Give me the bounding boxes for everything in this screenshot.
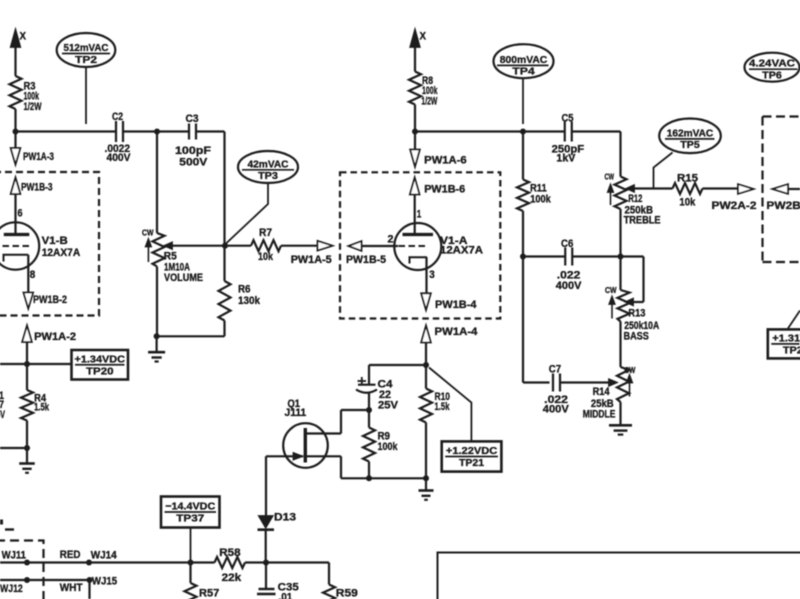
svg-text:42mVAC: 42mVAC: [248, 158, 289, 170]
svg-text:1/2W: 1/2W: [421, 96, 437, 108]
svg-text:PW2A-2: PW2A-2: [712, 200, 757, 212]
svg-text:TP21: TP21: [459, 457, 484, 469]
svg-text:10k: 10k: [679, 197, 696, 209]
svg-text:R7: R7: [259, 227, 272, 239]
svg-text:V1-B: V1-B: [42, 235, 68, 247]
svg-text:MIDDLE: MIDDLE: [583, 409, 616, 421]
svg-text:400V: 400V: [556, 280, 582, 292]
svg-text:C2: C2: [112, 111, 123, 123]
svg-text:6: 6: [18, 208, 23, 220]
svg-text:PW1A-5: PW1A-5: [291, 254, 332, 266]
svg-text:PW1A-3: PW1A-3: [23, 151, 54, 163]
svg-text:TP6: TP6: [762, 70, 782, 82]
svg-text:X: X: [420, 31, 427, 43]
svg-text:800mVAC: 800mVAC: [500, 54, 548, 66]
svg-text:PW1B-5: PW1B-5: [346, 254, 386, 266]
svg-text:WJ15: WJ15: [92, 576, 117, 588]
svg-text:R14: R14: [593, 386, 611, 398]
svg-text:R59: R59: [336, 588, 358, 599]
svg-text:500V: 500V: [179, 157, 208, 169]
svg-text:10k: 10k: [258, 251, 274, 263]
svg-text:C5: C5: [562, 113, 574, 125]
svg-text:BASS: BASS: [624, 331, 649, 343]
svg-text:5V: 5V: [0, 409, 5, 421]
svg-text:PW1A-2: PW1A-2: [34, 331, 76, 343]
svg-text:PW1A-6: PW1A-6: [424, 154, 467, 166]
svg-text:CW: CW: [142, 228, 154, 238]
svg-text:.01: .01: [278, 592, 292, 599]
svg-text:C6: C6: [561, 238, 573, 250]
svg-text:CW: CW: [605, 172, 615, 182]
svg-text:512mVAC: 512mVAC: [64, 42, 109, 54]
svg-text:C3: C3: [186, 113, 199, 125]
svg-text:1: 1: [417, 208, 422, 220]
svg-text:2: 2: [388, 234, 394, 246]
svg-text:+1.31VDC: +1.31VDC: [772, 333, 800, 345]
svg-text:1.5k: 1.5k: [435, 401, 451, 413]
svg-text:CW: CW: [605, 285, 617, 295]
svg-text:TP2: TP2: [75, 54, 97, 66]
svg-text:TREBLE: TREBLE: [624, 215, 661, 227]
svg-text:4.24VAC: 4.24VAC: [749, 58, 795, 70]
svg-text:22k: 22k: [222, 572, 243, 584]
svg-text:PW1A-4: PW1A-4: [435, 326, 479, 338]
svg-text:R58: R58: [219, 547, 240, 559]
svg-text:400V: 400V: [107, 152, 132, 164]
svg-text:1kV: 1kV: [556, 153, 576, 165]
svg-text:25V: 25V: [378, 400, 399, 412]
svg-text:WJ12: WJ12: [0, 583, 23, 595]
svg-text:8: 8: [30, 269, 36, 281]
svg-text:1/2W: 1/2W: [24, 101, 42, 113]
svg-text:CW: CW: [624, 365, 636, 375]
svg-text:PW2B-2: PW2B-2: [766, 200, 800, 212]
svg-text:PW1B-4: PW1B-4: [435, 299, 477, 311]
svg-text:WJ14: WJ14: [91, 550, 118, 562]
svg-text:C7: C7: [549, 364, 561, 376]
svg-text:TP37: TP37: [176, 513, 204, 525]
svg-text:R12: R12: [628, 193, 642, 205]
svg-text:WJ11: WJ11: [2, 550, 26, 562]
svg-text:J111: J111: [285, 407, 307, 419]
svg-text:TP4: TP4: [512, 66, 535, 78]
svg-text:1.5k: 1.5k: [34, 402, 50, 414]
svg-text:+1.34VDC: +1.34VDC: [75, 353, 126, 365]
svg-text:162mVAC: 162mVAC: [667, 127, 714, 139]
svg-text:PW1B-3: PW1B-3: [21, 182, 53, 194]
svg-text:130k: 130k: [238, 295, 261, 307]
svg-text:WHT: WHT: [60, 582, 83, 594]
svg-text:R6: R6: [238, 284, 251, 296]
svg-text:100pF: 100pF: [175, 145, 211, 157]
svg-text:TP5: TP5: [680, 139, 700, 151]
svg-text:X: X: [20, 31, 27, 43]
svg-text:100k: 100k: [530, 194, 551, 206]
svg-text:400V: 400V: [543, 403, 570, 415]
svg-text:PW1B-2: PW1B-2: [33, 294, 67, 306]
svg-text:TP20: TP20: [86, 365, 114, 377]
svg-text:3: 3: [429, 269, 435, 281]
svg-text:100k: 100k: [378, 441, 399, 453]
svg-text:TP22: TP22: [783, 345, 800, 357]
svg-text:−14.4VDC: −14.4VDC: [165, 501, 215, 513]
svg-text:TP3: TP3: [258, 170, 278, 182]
svg-text:12AX7A: 12AX7A: [42, 247, 81, 259]
svg-text:12AX7A: 12AX7A: [440, 245, 483, 257]
svg-text:R57: R57: [199, 588, 219, 599]
svg-text:D13: D13: [274, 512, 296, 524]
svg-text:RED: RED: [60, 549, 81, 561]
svg-text:PW1B-6: PW1B-6: [424, 184, 465, 196]
svg-text:+1.22VDC: +1.22VDC: [446, 445, 498, 457]
svg-text:VOLUME: VOLUME: [164, 272, 203, 284]
svg-text:R15: R15: [677, 173, 698, 185]
svg-text:R13: R13: [628, 308, 645, 320]
